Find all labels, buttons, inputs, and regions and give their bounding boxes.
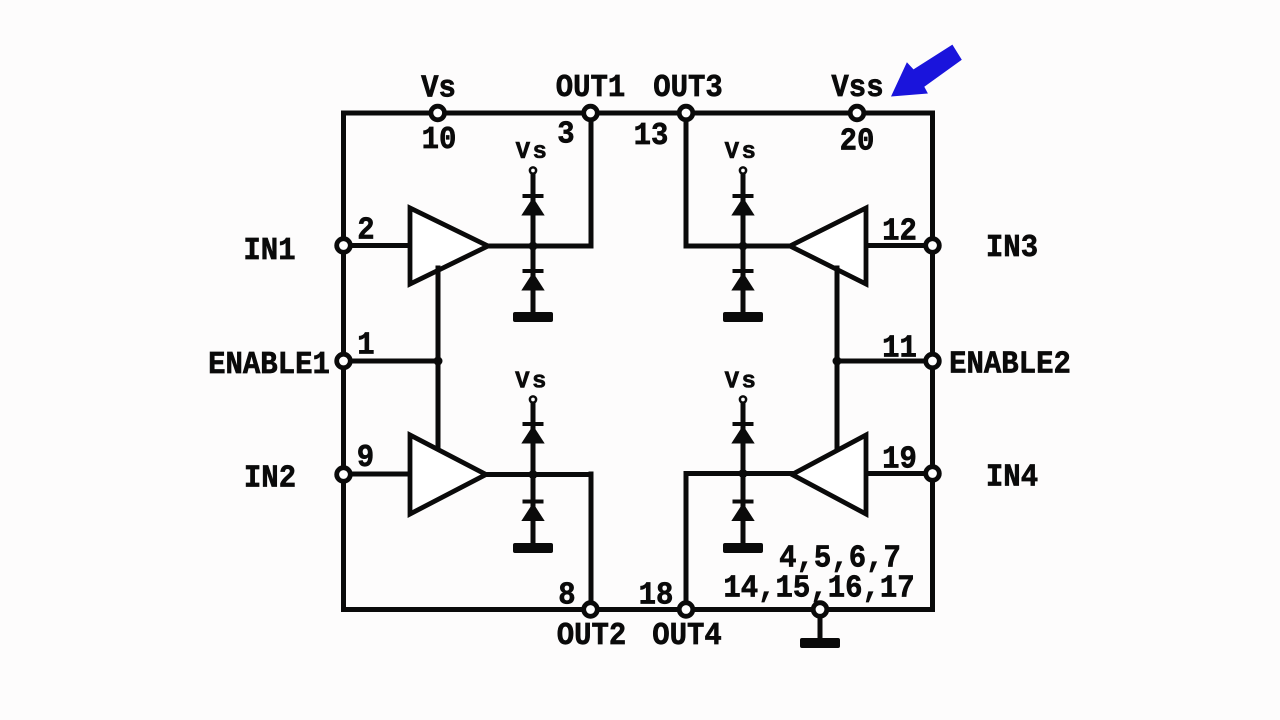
svg-text:ENABLE2: ENABLE2	[949, 347, 1071, 383]
pin 1 (ENABLE1)	[337, 354, 351, 368]
svg-text:10: 10	[422, 123, 457, 159]
svg-text:OUT4: OUT4	[652, 619, 722, 655]
wire OUT1 vertical to pin 3	[589, 113, 594, 246]
svg-text:IN4: IN4	[986, 460, 1038, 496]
pin 8 (OUT2)	[584, 603, 598, 617]
wire buffer A4 output to OUT4 node	[686, 471, 794, 476]
wire IN2 pin to buffer A2 input	[344, 472, 413, 477]
svg-text:Vs: Vs	[516, 139, 550, 166]
svg-text:1: 1	[357, 328, 374, 364]
wire IN3 pin to buffer A3 input	[864, 243, 933, 248]
svg-text:Vs: Vs	[725, 368, 759, 395]
svg-text:Vs: Vs	[515, 368, 549, 395]
ground (stack 4)	[723, 543, 763, 553]
svg-text:IN1: IN1	[243, 234, 295, 270]
Vs terminal circle (stack 2)	[530, 396, 536, 402]
svg-text:19: 19	[882, 442, 917, 478]
Vs terminal circle (stack 1)	[530, 167, 536, 173]
wire IN1 pin to buffer A1 input	[344, 243, 413, 248]
ground (stack 3)	[723, 312, 763, 322]
wire clamp stack 1 vertical	[531, 175, 536, 313]
pin 13 (OUT3)	[679, 106, 693, 120]
svg-text:ENABLE1: ENABLE1	[208, 348, 330, 384]
svg-text:18: 18	[639, 578, 674, 614]
diode D5 upper clamp ch3	[731, 194, 754, 216]
diode D6 lower clamp ch3	[731, 269, 754, 291]
svg-text:Vs: Vs	[421, 71, 456, 107]
node: enable2 junction	[833, 357, 842, 366]
diode D8 lower clamp ch4	[731, 500, 754, 522]
wire OUT4 vertical to pin 18	[684, 474, 689, 610]
svg-text:14,15,16,17: 14,15,16,17	[723, 571, 914, 607]
buffer A1	[410, 208, 488, 284]
diode D4 lower clamp ch2	[521, 500, 544, 522]
node: stack3 / OUT3 junction	[739, 242, 748, 251]
svg-text:OUT2: OUT2	[557, 619, 627, 655]
node: enable1 junction	[434, 357, 443, 366]
pin 4,5,6,7,14,15,16,17 (GND)	[813, 603, 827, 617]
ground (stack 1)	[513, 312, 553, 322]
svg-text:OUT1: OUT1	[556, 71, 626, 107]
buffer A3	[790, 208, 866, 284]
svg-text:OUT3: OUT3	[653, 71, 723, 107]
svg-text:9: 9	[357, 441, 374, 477]
svg-text:Vss: Vss	[831, 71, 883, 107]
pin 18 (OUT4)	[679, 603, 693, 617]
wire clamp stack 3 vertical	[741, 175, 746, 313]
annotation arrow pointing to Vss pin	[891, 45, 962, 97]
pin 12 (IN3)	[926, 239, 940, 253]
svg-text:IN2: IN2	[244, 461, 296, 497]
wire ENABLE1 pin to node	[344, 359, 439, 364]
wire enable1 vertical (A1 to A2)	[436, 268, 441, 450]
diode D3 upper clamp ch2	[521, 422, 544, 444]
pin 19 (IN4)	[926, 467, 940, 481]
wire clamp stack 2 vertical	[531, 404, 536, 544]
wire enable2 vertical (A3 to A4)	[835, 268, 840, 450]
diode D1 upper clamp ch1	[521, 194, 544, 216]
svg-text:13: 13	[634, 119, 669, 155]
node: stack4 / OUT4 junction	[739, 469, 748, 478]
wire buffer A1 output to OUT1 node	[486, 244, 591, 249]
node: stack2 / OUT2 junction	[529, 470, 538, 479]
buffer A2	[410, 435, 486, 514]
pin 3 (OUT1)	[584, 106, 598, 120]
diode D7 upper clamp ch4	[731, 422, 754, 444]
pin 10 (Vs)	[431, 106, 445, 120]
pin 11 (ENABLE2)	[926, 354, 940, 368]
buffer A4	[792, 435, 866, 514]
Vs terminal circle (stack 3)	[740, 167, 746, 173]
pin 2 (IN1)	[337, 239, 351, 253]
IC package outline	[344, 113, 933, 610]
wire OUT3 vertical to pin 13	[684, 113, 689, 246]
ground (package ground pins)	[800, 638, 840, 648]
svg-text:Vs: Vs	[725, 139, 759, 166]
wire IN4 pin to buffer A4 input	[864, 471, 933, 476]
wire ground pin stem	[818, 610, 823, 640]
svg-text:11: 11	[882, 331, 917, 367]
pin 9 (IN2)	[337, 468, 351, 482]
wire OUT2 vertical to pin 8	[589, 474, 594, 610]
diode D2 lower clamp ch1	[521, 269, 544, 291]
Vs terminal circle (stack 4)	[740, 396, 746, 402]
wire buffer A3 output to OUT3 node	[686, 244, 792, 249]
svg-text:20: 20	[840, 124, 875, 160]
wire clamp stack 4 vertical	[741, 404, 746, 544]
pin 20 (Vss)	[850, 106, 864, 120]
svg-text:IN3: IN3	[986, 231, 1038, 267]
node: stack1 / OUT1 junction	[529, 242, 538, 251]
svg-text:12: 12	[882, 214, 917, 250]
svg-text:2: 2	[357, 213, 374, 249]
svg-text:8: 8	[558, 578, 575, 614]
wire buffer A2 output to OUT2 node	[484, 472, 591, 477]
ground (stack 2)	[513, 543, 553, 553]
svg-text:3: 3	[557, 117, 574, 153]
wire ENABLE2 pin to node	[837, 359, 933, 364]
